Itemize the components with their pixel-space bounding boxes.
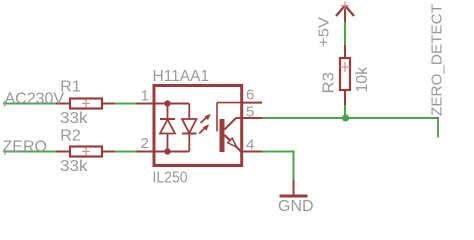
svg-text:ZERO: ZERO	[3, 139, 47, 156]
svg-text:R2: R2	[60, 128, 81, 145]
svg-text:IL250: IL250	[153, 170, 188, 187]
svg-text:6: 6	[246, 87, 254, 104]
svg-text:ZERO_DETECT: ZERO_DETECT	[429, 4, 446, 116]
svg-text:33k: 33k	[60, 158, 89, 175]
svg-text:GND: GND	[278, 198, 314, 215]
svg-text:5: 5	[246, 104, 254, 121]
svg-text:10k: 10k	[354, 66, 371, 92]
svg-text:R3: R3	[321, 72, 338, 94]
svg-text:H11AA1: H11AA1	[153, 68, 210, 85]
svg-text:33k: 33k	[60, 110, 89, 127]
svg-text:R1: R1	[60, 79, 81, 96]
svg-text:AC230V: AC230V	[5, 91, 65, 108]
svg-text:+5V: +5V	[315, 17, 332, 47]
svg-text:2: 2	[141, 135, 149, 152]
svg-text:1: 1	[141, 88, 149, 105]
svg-text:4: 4	[246, 137, 254, 154]
